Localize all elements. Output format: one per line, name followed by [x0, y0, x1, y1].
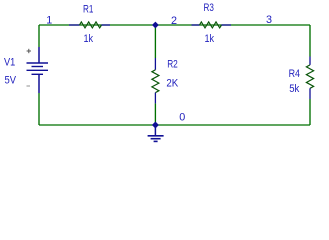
wire right vertical below R4 — [309, 99, 311, 125]
pin right R3 — [222, 24, 232, 26]
wire right vertical (R4 branch) — [309, 25, 311, 57]
zigzag R1 — [80, 22, 102, 28]
svg-text:R4: R4 — [289, 68, 300, 80]
svg-text:0: 0 — [179, 111, 185, 123]
resistor R2 — [152, 58, 159, 103]
svg-text:2K: 2K — [166, 77, 179, 89]
ground — [148, 125, 164, 141]
pin bottom R4 — [309, 88, 311, 99]
plate long top — [27, 62, 49, 64]
pin bottom R2 — [154, 93, 156, 104]
wire top from node 1 corner to node 3 corner — [39, 24, 310, 26]
svg-text:2: 2 — [171, 15, 177, 27]
battery V1 — [27, 47, 49, 93]
resistor R3 — [192, 22, 232, 28]
svg-text:R3: R3 — [204, 2, 214, 14]
plus sign of V1 — [27, 49, 31, 53]
pin top R4 — [309, 57, 311, 65]
pin left R1 — [69, 24, 80, 26]
wire bottom — [39, 124, 310, 126]
zigzag R4 — [306, 65, 313, 88]
svg-text:1k: 1k — [84, 33, 94, 45]
wire middle vertical (R2 branch) — [154, 25, 156, 58]
pin bottom of V1 — [38, 74, 40, 93]
svg-text:1: 1 — [46, 15, 52, 27]
svg-text:R2: R2 — [167, 59, 178, 71]
wire left vertical below battery — [38, 93, 40, 125]
zigzag R3 — [200, 22, 222, 28]
junction dot node 2 — [152, 22, 159, 29]
svg-text:1k: 1k — [205, 33, 215, 45]
svg-text:V1: V1 — [4, 57, 15, 69]
svg-text:R1: R1 — [83, 3, 93, 15]
svg-text:3: 3 — [266, 14, 272, 26]
pin left R3 — [192, 24, 200, 26]
svg-text:5V: 5V — [5, 74, 17, 86]
plate long bottom — [27, 69, 49, 71]
junction dot node 0 — [152, 122, 159, 129]
plate short bottom — [32, 73, 44, 75]
resistor R1 — [69, 22, 110, 28]
plate short — [32, 66, 44, 68]
pin top of V1 — [38, 47, 40, 63]
zigzag R2 — [152, 70, 159, 93]
svg-text:5k: 5k — [289, 83, 300, 95]
wire middle vertical below R2 — [154, 103, 156, 125]
resistor R4 — [306, 57, 313, 100]
pin top R2 — [154, 58, 156, 70]
pin right R1 — [102, 24, 111, 26]
wire left vertical (battery branch) — [38, 25, 40, 47]
minus sign of V1 — [27, 85, 31, 87]
